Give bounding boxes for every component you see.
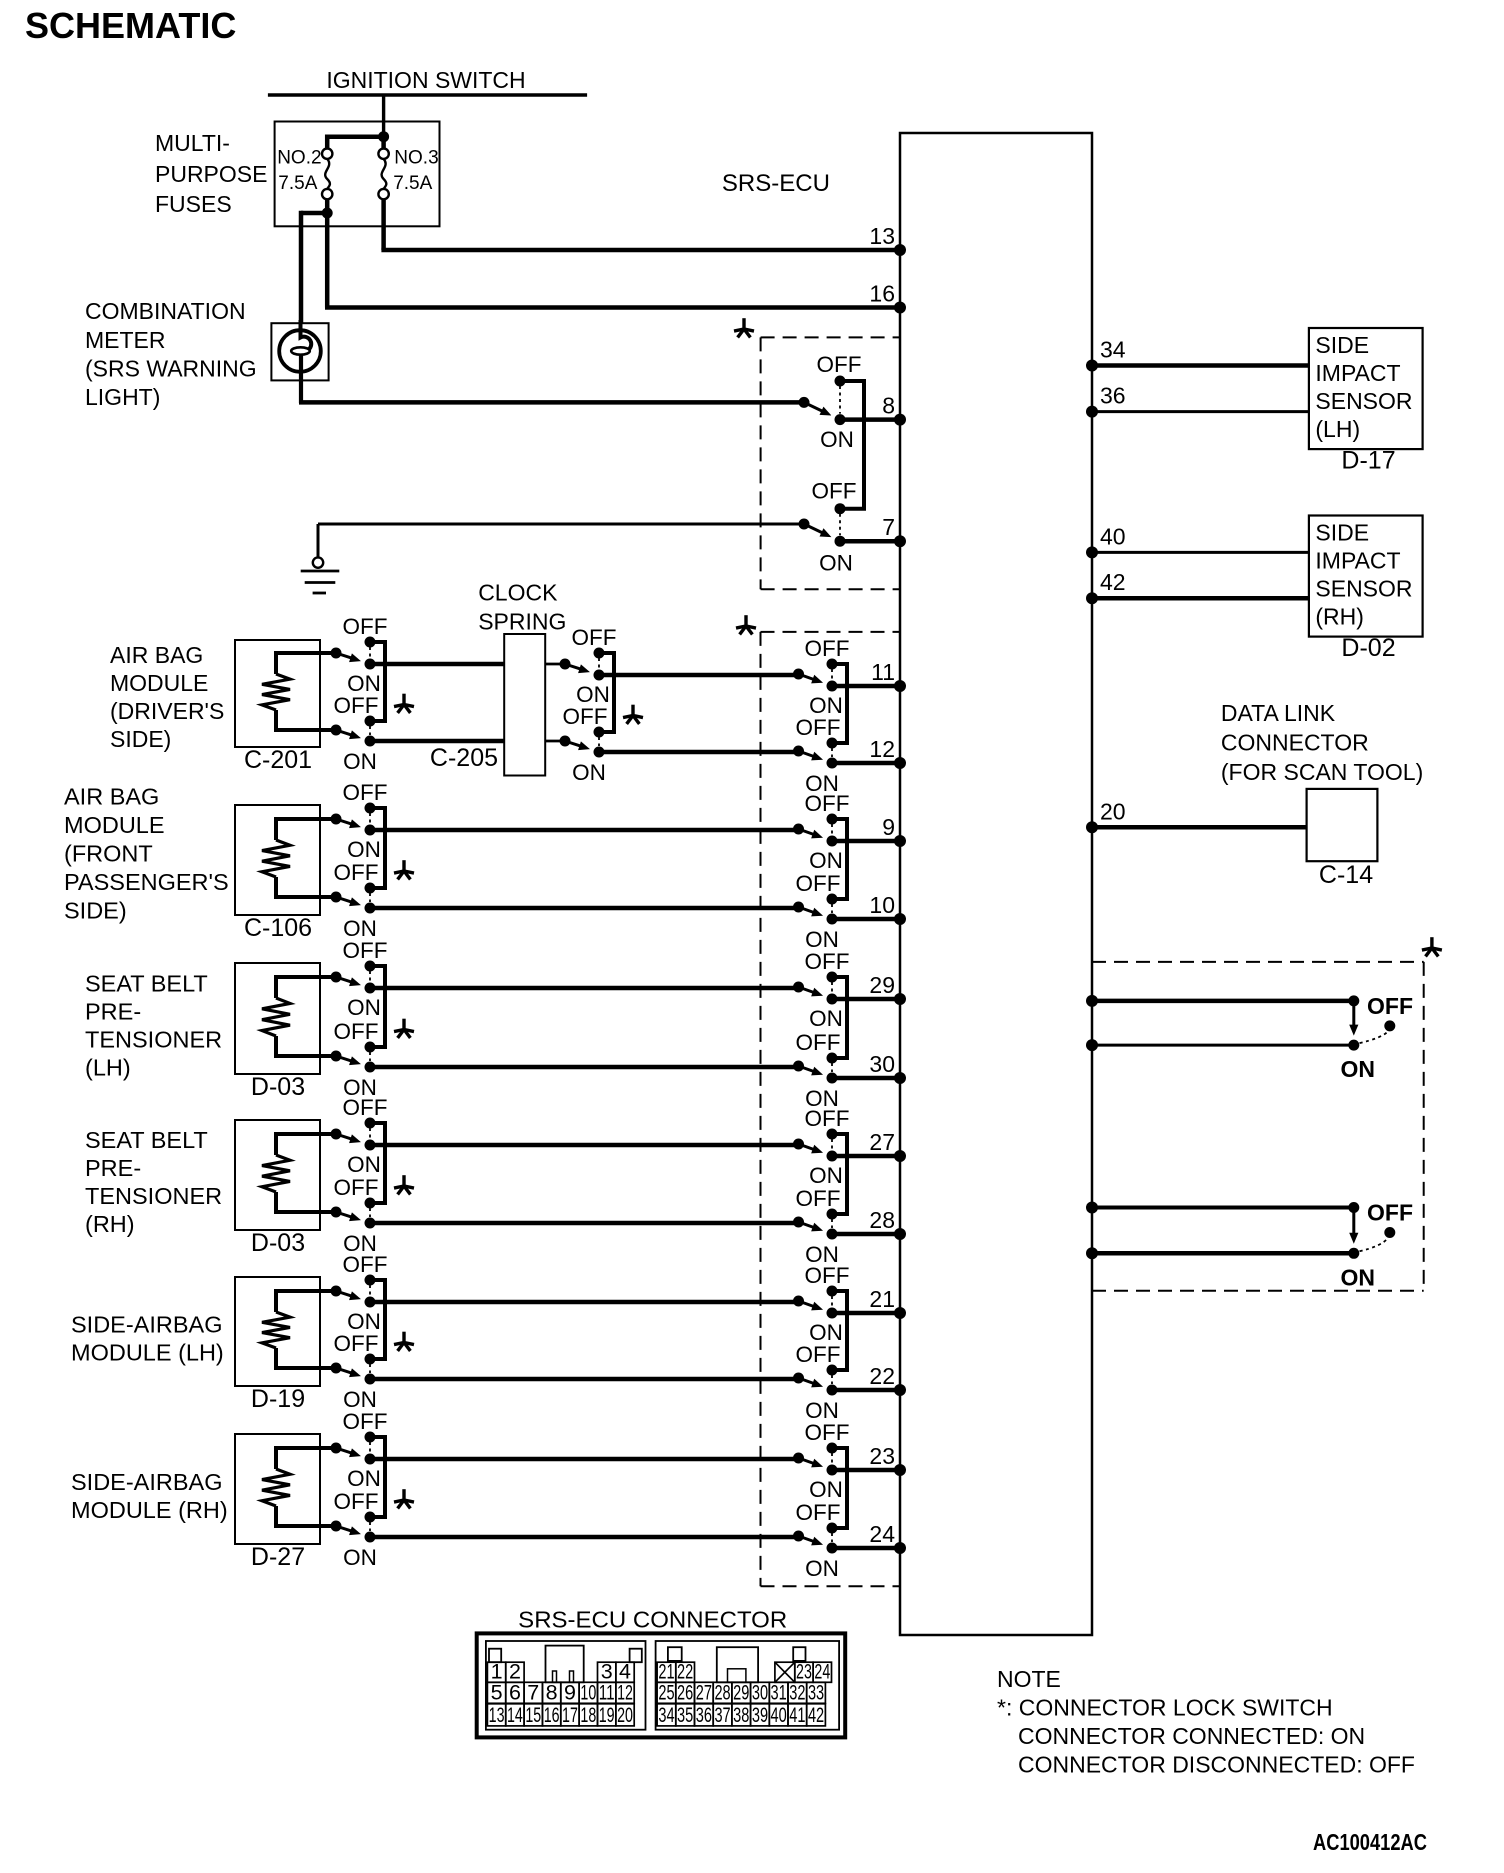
svg-text:ON: ON	[347, 837, 381, 862]
svg-text:(FRONT: (FRONT	[64, 841, 153, 867]
svg-text:OFF: OFF	[812, 478, 857, 503]
svg-text:42: 42	[1100, 569, 1126, 595]
svg-text:OFF: OFF	[334, 1489, 379, 1514]
svg-text:MODULE: MODULE	[110, 670, 208, 696]
svg-text:31: 31	[771, 1680, 787, 1704]
svg-text:(LH): (LH)	[1315, 416, 1360, 442]
svg-text:(RH): (RH)	[85, 1211, 135, 1237]
svg-text:10: 10	[580, 1680, 596, 1704]
svg-text:6: 6	[509, 1680, 521, 1704]
svg-text:8: 8	[882, 393, 895, 419]
svg-text:OFF: OFF	[572, 625, 617, 650]
svg-text:CONNECTOR DISCONNECTED: OFF: CONNECTOR DISCONNECTED: OFF	[1018, 1752, 1415, 1778]
svg-text:CONNECTOR CONNECTED: ON: CONNECTOR CONNECTED: ON	[1018, 1723, 1365, 1749]
svg-text:C-14: C-14	[1319, 861, 1373, 889]
svg-text:27: 27	[696, 1680, 712, 1704]
svg-text:20: 20	[617, 1703, 633, 1727]
svg-text:11: 11	[871, 659, 895, 685]
svg-text:ON: ON	[1341, 1056, 1376, 1082]
svg-text:ON: ON	[809, 1006, 843, 1031]
svg-text:OFF: OFF	[805, 1106, 850, 1131]
svg-text:OFF: OFF	[334, 1331, 379, 1356]
svg-text:12: 12	[617, 1680, 633, 1704]
svg-text:15: 15	[525, 1703, 541, 1727]
svg-text:11: 11	[599, 1680, 615, 1704]
svg-text:16: 16	[544, 1703, 560, 1727]
svg-text:25: 25	[658, 1680, 674, 1704]
svg-text:IMPACT: IMPACT	[1315, 360, 1400, 386]
svg-text:SEAT BELT: SEAT BELT	[85, 971, 208, 997]
svg-text:FUSES: FUSES	[155, 191, 232, 217]
svg-text:ON: ON	[343, 1545, 377, 1570]
svg-text:OFF: OFF	[805, 636, 850, 661]
svg-text:ON: ON	[347, 995, 381, 1020]
svg-text:SIDE-AIRBAG: SIDE-AIRBAG	[71, 1469, 222, 1495]
svg-text:OFF: OFF	[796, 1186, 841, 1211]
svg-text:35: 35	[677, 1703, 693, 1727]
svg-text:C-205: C-205	[430, 744, 498, 772]
svg-text:C-201: C-201	[244, 746, 312, 774]
svg-text:PURPOSE: PURPOSE	[155, 161, 267, 187]
svg-text:42: 42	[808, 1703, 824, 1727]
svg-text:D-27: D-27	[251, 1543, 305, 1571]
svg-text:14: 14	[507, 1703, 523, 1727]
svg-text:ON: ON	[819, 550, 853, 575]
svg-text:CLOCK: CLOCK	[478, 580, 558, 606]
svg-text:NOTE: NOTE	[997, 1666, 1061, 1692]
svg-text:19: 19	[599, 1703, 615, 1727]
svg-text:9: 9	[564, 1680, 576, 1704]
svg-text:38: 38	[733, 1703, 749, 1727]
svg-text:ON: ON	[809, 1477, 843, 1502]
svg-text:22: 22	[869, 1363, 895, 1389]
svg-text:ON: ON	[809, 1163, 843, 1188]
svg-text:PRE-: PRE-	[85, 1155, 141, 1181]
svg-text:CONNECTOR: CONNECTOR	[1221, 730, 1369, 756]
svg-text:OFF: OFF	[343, 938, 388, 963]
svg-text:26: 26	[677, 1680, 693, 1704]
svg-text:OFF: OFF	[343, 780, 388, 805]
svg-text:18: 18	[580, 1703, 596, 1727]
svg-text:AIR BAG: AIR BAG	[110, 642, 203, 668]
svg-text:27: 27	[869, 1129, 895, 1155]
svg-text:IGNITION SWITCH: IGNITION SWITCH	[326, 67, 525, 93]
svg-text:7: 7	[527, 1680, 539, 1704]
svg-text:7.5A: 7.5A	[393, 173, 432, 194]
svg-text:D-19: D-19	[251, 1385, 305, 1413]
svg-text:(RH): (RH)	[1315, 604, 1364, 630]
svg-text:NO.3: NO.3	[394, 147, 438, 168]
svg-text:37: 37	[714, 1703, 730, 1727]
svg-text:(SRS WARNING: (SRS WARNING	[85, 356, 257, 382]
svg-text:*: CONNECTOR LOCK SWITCH: *: CONNECTOR LOCK SWITCH	[997, 1695, 1333, 1721]
svg-text:D-03: D-03	[251, 1229, 305, 1257]
svg-text:OFF: OFF	[796, 715, 841, 740]
svg-text:OFF: OFF	[805, 1263, 850, 1288]
svg-text:ON: ON	[820, 427, 854, 452]
svg-text:OFF: OFF	[796, 871, 841, 896]
svg-text:36: 36	[696, 1703, 712, 1727]
svg-text:13: 13	[489, 1703, 505, 1727]
svg-text:SIDE: SIDE	[1315, 520, 1369, 546]
svg-text:SCHEMATIC: SCHEMATIC	[25, 5, 236, 46]
svg-text:28: 28	[869, 1207, 895, 1233]
svg-text:34: 34	[1100, 337, 1126, 363]
svg-text:SEAT BELT: SEAT BELT	[85, 1127, 208, 1153]
svg-text:ON: ON	[572, 760, 606, 785]
svg-text:ON: ON	[805, 1556, 839, 1581]
svg-text:MULTI-: MULTI-	[155, 130, 230, 156]
svg-text:7: 7	[882, 514, 895, 540]
svg-text:D-17: D-17	[1341, 447, 1395, 475]
svg-text:OFF: OFF	[796, 1342, 841, 1367]
svg-text:AC100412AC: AC100412AC	[1313, 1829, 1427, 1855]
svg-text:METER: METER	[85, 327, 166, 353]
svg-text:34: 34	[658, 1703, 674, 1727]
svg-text:SIDE: SIDE	[1315, 332, 1369, 358]
svg-text:NO.2: NO.2	[277, 147, 321, 168]
svg-text:32: 32	[789, 1680, 805, 1704]
svg-text:30: 30	[869, 1051, 895, 1077]
svg-text:ON: ON	[347, 1152, 381, 1177]
svg-text:OFF: OFF	[796, 1030, 841, 1055]
svg-text:(LH): (LH)	[85, 1055, 131, 1081]
svg-text:41: 41	[789, 1703, 805, 1727]
svg-text:SENSOR: SENSOR	[1315, 576, 1412, 602]
svg-text:SRS-ECU CONNECTOR: SRS-ECU CONNECTOR	[518, 1606, 787, 1632]
svg-text:COMBINATION: COMBINATION	[85, 298, 246, 324]
svg-text:(DRIVER'S: (DRIVER'S	[110, 698, 224, 724]
svg-text:OFF: OFF	[1367, 993, 1413, 1019]
svg-text:MODULE (LH): MODULE (LH)	[71, 1340, 224, 1366]
svg-text:24: 24	[869, 1521, 895, 1547]
svg-text:40: 40	[1100, 523, 1126, 549]
svg-text:OFF: OFF	[817, 352, 862, 377]
svg-text:40: 40	[771, 1703, 787, 1727]
svg-text:OFF: OFF	[334, 860, 379, 885]
svg-text:28: 28	[714, 1680, 730, 1704]
svg-text:SENSOR: SENSOR	[1315, 388, 1412, 414]
svg-text:ON: ON	[347, 1466, 381, 1491]
svg-text:MODULE (RH): MODULE (RH)	[71, 1497, 228, 1523]
svg-text:ON: ON	[1341, 1264, 1376, 1290]
svg-text:17: 17	[562, 1703, 578, 1727]
svg-text:OFF: OFF	[1367, 1200, 1413, 1226]
svg-text:39: 39	[752, 1703, 768, 1727]
svg-text:29: 29	[733, 1680, 749, 1704]
svg-text:TENSIONER: TENSIONER	[85, 1183, 222, 1209]
svg-text:LIGHT): LIGHT)	[85, 384, 160, 410]
svg-text:OFF: OFF	[805, 1420, 850, 1445]
svg-text:SRS-ECU: SRS-ECU	[722, 170, 830, 197]
svg-text:12: 12	[869, 736, 895, 762]
svg-text:(FOR SCAN TOOL): (FOR SCAN TOOL)	[1221, 759, 1423, 785]
svg-text:OFF: OFF	[563, 704, 608, 729]
svg-text:DATA LINK: DATA LINK	[1221, 700, 1336, 726]
svg-text:MODULE: MODULE	[64, 812, 165, 838]
svg-text:36: 36	[1100, 383, 1126, 409]
svg-text:13: 13	[869, 223, 895, 249]
svg-text:OFF: OFF	[805, 791, 850, 816]
svg-text:9: 9	[882, 814, 895, 840]
svg-text:PASSENGER'S: PASSENGER'S	[64, 869, 229, 895]
svg-text:5: 5	[491, 1680, 503, 1704]
svg-text:OFF: OFF	[343, 1095, 388, 1120]
svg-text:7.5A: 7.5A	[278, 173, 317, 194]
svg-text:OFF: OFF	[805, 949, 850, 974]
svg-text:SIDE): SIDE)	[64, 898, 127, 924]
svg-text:OFF: OFF	[334, 1175, 379, 1200]
svg-text:33: 33	[808, 1680, 824, 1704]
svg-text:SPRING: SPRING	[478, 608, 566, 634]
svg-text:ON: ON	[809, 848, 843, 873]
svg-text:20: 20	[1100, 798, 1126, 824]
svg-text:SIDE-AIRBAG: SIDE-AIRBAG	[71, 1312, 222, 1338]
svg-text:OFF: OFF	[343, 614, 388, 639]
svg-text:OFF: OFF	[343, 1409, 388, 1434]
svg-text:ON: ON	[343, 749, 377, 774]
svg-text:23: 23	[869, 1443, 895, 1469]
svg-text:30: 30	[752, 1680, 768, 1704]
svg-text:SIDE): SIDE)	[110, 726, 171, 752]
svg-text:10: 10	[869, 892, 895, 918]
svg-text:21: 21	[869, 1286, 895, 1312]
svg-text:IMPACT: IMPACT	[1315, 548, 1400, 574]
svg-text:OFF: OFF	[343, 1252, 388, 1277]
svg-text:16: 16	[869, 281, 895, 307]
svg-text:29: 29	[869, 972, 895, 998]
svg-text:D-03: D-03	[251, 1073, 305, 1101]
svg-text:OFF: OFF	[334, 1019, 379, 1044]
svg-text:AIR BAG: AIR BAG	[64, 784, 159, 810]
svg-text:OFF: OFF	[334, 693, 379, 718]
svg-text:8: 8	[546, 1680, 558, 1704]
svg-text:C-106: C-106	[244, 914, 312, 942]
svg-text:TENSIONER: TENSIONER	[85, 1027, 222, 1053]
svg-text:D-02: D-02	[1341, 634, 1395, 662]
svg-text:PRE-: PRE-	[85, 999, 141, 1025]
svg-text:OFF: OFF	[796, 1500, 841, 1525]
